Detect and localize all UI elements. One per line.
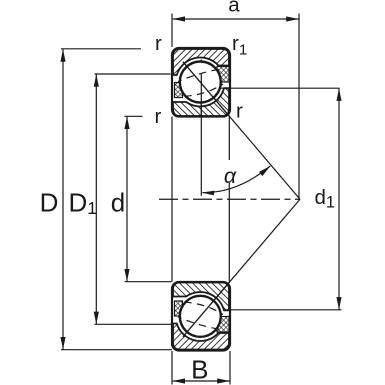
arrow a right bbox=[286, 16, 298, 21]
a extension over bearing left edge bbox=[171, 14, 173, 48]
arrow d up bbox=[124, 117, 129, 129]
arrowheads bbox=[60, 16, 341, 383]
alpha angle arc bbox=[203, 166, 271, 193]
arrow B left bbox=[173, 378, 185, 383]
contact line bottom bearing to apex bbox=[183, 199, 300, 336]
dimension d line bbox=[126, 117, 128, 282]
D1 extension top bbox=[95, 73, 171, 75]
D extension top bbox=[61, 48, 141, 50]
cage right bottom (cross-hatched) bbox=[217, 317, 229, 333]
centerline dash in top ball bbox=[200, 74, 202, 117]
D1 extension bottom bbox=[95, 323, 172, 325]
arrow a left bbox=[173, 16, 185, 21]
cage left bottom (cross-hatched) bbox=[175, 301, 183, 316]
svg-text:r: r bbox=[155, 32, 162, 55]
arrow alpha right bbox=[259, 166, 270, 176]
arrow D up bbox=[60, 49, 65, 61]
central horizontal axis (dash-dot) bbox=[159, 198, 300, 200]
dimension a line bbox=[173, 18, 299, 20]
d extension top bbox=[125, 115, 143, 117]
wire right-edge connector upper segment bbox=[228, 117, 230, 160]
B extension left bbox=[171, 351, 173, 385]
wire left-edge connector between sections bbox=[171, 117, 173, 282]
contact line top bearing to apex bbox=[183, 62, 300, 199]
svg-text:a: a bbox=[228, 0, 240, 17]
contact line across bottom ball bbox=[183, 282, 230, 337]
arrow alpha left bbox=[202, 191, 215, 196]
dashed raceway edge upper (bottom ball) bbox=[185, 302, 223, 314]
d extension bottom bbox=[125, 281, 172, 283]
dimension B line bbox=[173, 380, 230, 382]
wire right-edge connector lower segment bbox=[228, 183, 230, 282]
dashed raceway edge upper (top ball) bbox=[178, 69, 219, 81]
d1 extension bottom bbox=[227, 309, 342, 311]
outer ring bottom (hatched) bbox=[173, 324, 229, 350]
dimension D1 line bbox=[95, 74, 97, 324]
D extension bottom bbox=[61, 349, 172, 351]
arrow D down bbox=[60, 337, 65, 349]
dashed raceway edge lower (bottom ball) bbox=[178, 317, 219, 329]
outer ring top (hatched) bbox=[173, 49, 229, 75]
svg-text:d: d bbox=[111, 187, 125, 217]
arrow B right bbox=[217, 378, 229, 383]
cage left (cross-hatched) bbox=[175, 83, 183, 98]
arrow d1 down bbox=[336, 297, 341, 309]
d1 extension top bbox=[221, 87, 340, 89]
svg-text:B: B bbox=[191, 354, 208, 384]
ball top bbox=[180, 62, 221, 103]
section outline bottom bbox=[172, 282, 230, 351]
arrow D1 up bbox=[94, 74, 99, 86]
apex vertical extension to a-dimension bbox=[298, 14, 300, 200]
svg-text:r: r bbox=[236, 99, 243, 122]
ball bottom bbox=[180, 296, 221, 337]
dashed raceway edge lower (top ball) bbox=[185, 84, 223, 96]
cage right (cross-hatched) bbox=[217, 67, 229, 83]
inner ring bottom section (hatched) bbox=[173, 283, 229, 311]
inner ring top section (hatched) bbox=[173, 88, 229, 116]
arrow d down bbox=[124, 269, 129, 281]
svg-text:α: α bbox=[224, 164, 237, 188]
section outline bbox=[172, 48, 230, 117]
dimension D line bbox=[62, 49, 64, 349]
dimension d1 line bbox=[338, 89, 340, 310]
svg-text:D: D bbox=[40, 187, 59, 217]
svg-text:r: r bbox=[155, 105, 162, 128]
arrow d1 up bbox=[336, 89, 341, 101]
vertical centerline of bearing (top section to axis) bbox=[200, 60, 202, 196]
B extension right bbox=[229, 351, 231, 385]
arrow D1 down bbox=[94, 312, 99, 324]
contact line across top ball bbox=[183, 62, 230, 117]
